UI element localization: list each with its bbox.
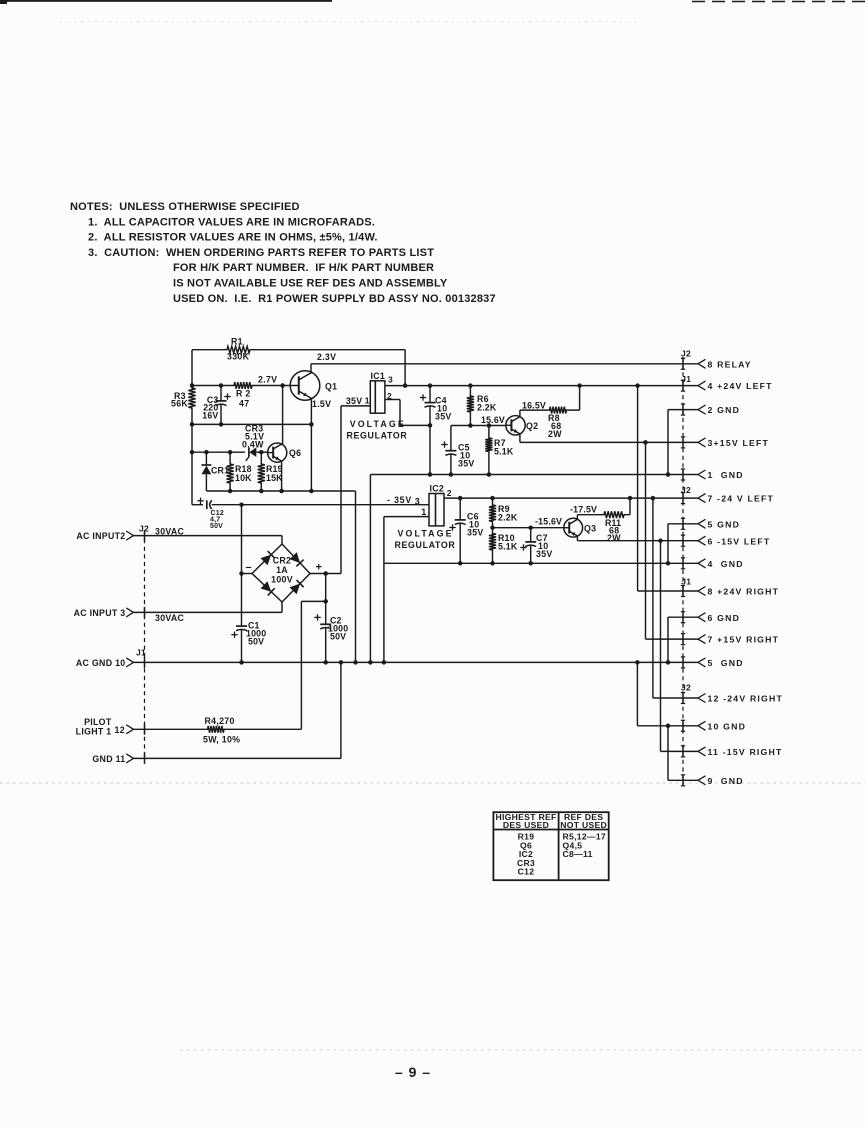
svg-text:7 -24 V LEFT: 7 -24 V LEFT (708, 494, 775, 504)
svg-text:16.5V: 16.5V (522, 401, 546, 411)
svg-text:1 GND: 1 GND (708, 470, 744, 480)
svg-text:GND 11: GND 11 (92, 754, 125, 764)
svg-text:12: 12 (115, 725, 125, 735)
svg-text:J2: J2 (681, 485, 691, 495)
svg-text:- 35V: - 35V (387, 495, 412, 505)
svg-text:USED ON. I.E. R1 POWER SUPPL: USED ON. I.E. R1 POWER SUPPLY BD ASSY NO… (173, 293, 496, 305)
svg-text:3+15V LEFT: 3+15V LEFT (708, 438, 770, 448)
svg-text:2 GND: 2 GND (708, 405, 741, 415)
svg-text:8 RELAY: 8 RELAY (708, 359, 752, 369)
svg-text:Q1: Q1 (325, 382, 337, 392)
svg-text:12 -24V RIGHT: 12 -24V RIGHT (708, 694, 783, 704)
svg-text:5 GND: 5 GND (708, 519, 741, 529)
svg-text:15K: 15K (266, 473, 283, 483)
svg-text:AC GND 10: AC GND 10 (76, 658, 126, 668)
svg-text:J2: J2 (681, 349, 691, 359)
svg-text:– 9 –: – 9 – (395, 1064, 431, 1080)
svg-text:2: 2 (447, 488, 452, 498)
svg-text:30VAC: 30VAC (155, 613, 185, 623)
svg-text:AC INPUT 3: AC INPUT 3 (74, 608, 126, 618)
svg-text:Q6: Q6 (289, 448, 301, 458)
svg-text:1.5V: 1.5V (312, 399, 331, 409)
svg-text:R4,270: R4,270 (205, 716, 235, 726)
svg-text:9 GND: 9 GND (708, 776, 744, 786)
svg-text:FOR H/K PART NUMBER. IF H/K P: FOR H/K PART NUMBER. IF H/K PART NUMBER (173, 262, 434, 274)
svg-text:1A: 1A (276, 565, 288, 575)
svg-text:+: + (316, 562, 323, 574)
svg-text:–: – (246, 562, 252, 574)
svg-text:-15.6V: -15.6V (535, 517, 562, 527)
svg-text:VOLTAGE: VOLTAGE (398, 528, 452, 538)
svg-text:7 +15V RIGHT: 7 +15V RIGHT (708, 635, 780, 645)
svg-text:50V: 50V (248, 637, 264, 647)
svg-text:IS NOT AVAILABLE USE REF DES A: IS NOT AVAILABLE USE REF DES AND ASSEMBL… (173, 278, 448, 290)
svg-text:REGULATOR: REGULATOR (347, 430, 408, 440)
svg-text:5.1K: 5.1K (494, 447, 514, 457)
svg-text:J2: J2 (681, 683, 691, 693)
svg-text:330K: 330K (227, 352, 250, 362)
svg-text:NOTES: UNLESS OTHERWISE SPEC: NOTES: UNLESS OTHERWISE SPECIFIED (70, 201, 300, 213)
svg-text:REGULATOR: REGULATOR (395, 540, 456, 550)
svg-text:2W: 2W (548, 429, 562, 439)
svg-text:35V: 35V (467, 528, 484, 538)
svg-text:2.3V: 2.3V (317, 352, 336, 362)
svg-text:1: 1 (421, 507, 426, 517)
svg-text:-17.5V: -17.5V (570, 505, 597, 515)
svg-text:47: 47 (239, 399, 249, 409)
svg-text:6 GND: 6 GND (708, 613, 741, 623)
svg-text:3. CAUTION: WHEN ORDERING P: 3. CAUTION: WHEN ORDERING PARTS REFER TO… (88, 247, 434, 259)
svg-text:10K: 10K (235, 473, 252, 483)
svg-text:Q2: Q2 (526, 421, 538, 431)
svg-text:4 GND: 4 GND (708, 559, 744, 569)
svg-text:AC INPUT2: AC INPUT2 (76, 531, 125, 541)
svg-text:J1: J1 (681, 374, 691, 384)
svg-text:2.2K: 2.2K (498, 513, 518, 523)
svg-text:LIGHT 1: LIGHT 1 (76, 727, 112, 737)
svg-text:VOLTAGE: VOLTAGE (350, 419, 404, 429)
svg-text:IC2: IC2 (430, 484, 445, 494)
svg-text:C8—11: C8—11 (563, 849, 593, 859)
svg-text:R 2: R 2 (236, 389, 251, 399)
svg-text:4 +24V LEFT: 4 +24V LEFT (708, 381, 773, 391)
svg-text:6 -15V LEFT: 6 -15V LEFT (708, 536, 771, 546)
svg-text:35V: 35V (346, 396, 363, 406)
svg-text:5 GND: 5 GND (708, 658, 744, 668)
svg-text:IC1: IC1 (371, 371, 386, 381)
svg-text:35V: 35V (435, 412, 452, 422)
svg-text:NOT USED: NOT USED (560, 820, 607, 830)
svg-text:35V: 35V (458, 459, 475, 469)
svg-text:11 -15V RIGHT: 11 -15V RIGHT (708, 747, 783, 757)
svg-text:5.1K: 5.1K (498, 542, 518, 552)
svg-text:R1: R1 (231, 337, 243, 347)
svg-text:2. ALL RESISTOR VALUES ARE IN: 2. ALL RESISTOR VALUES ARE IN OHMS, ±5%,… (88, 232, 378, 244)
svg-text:10 GND: 10 GND (708, 721, 747, 731)
svg-text:CR2: CR2 (273, 556, 292, 566)
svg-text:15.6V: 15.6V (481, 415, 505, 425)
svg-text:2.2K: 2.2K (477, 403, 497, 413)
svg-text:50V: 50V (330, 632, 346, 642)
svg-text:35V: 35V (536, 549, 553, 559)
svg-text:0.4W: 0.4W (242, 440, 264, 450)
svg-text:8 +24V RIGHT: 8 +24V RIGHT (708, 587, 780, 597)
svg-text:56K: 56K (171, 399, 188, 409)
svg-text:1: 1 (365, 396, 370, 406)
svg-text:C12: C12 (518, 867, 535, 877)
svg-text:2.7V: 2.7V (258, 375, 277, 385)
svg-text:DES USED: DES USED (503, 820, 549, 830)
svg-text:2W: 2W (607, 533, 621, 543)
svg-text:J1: J1 (681, 577, 691, 587)
svg-text:3: 3 (415, 497, 420, 507)
svg-text:100V: 100V (271, 575, 293, 585)
svg-text:5W, 10%: 5W, 10% (203, 735, 240, 745)
svg-text:50V: 50V (210, 523, 223, 530)
svg-text:30VAC: 30VAC (155, 527, 185, 537)
svg-text:16V: 16V (202, 411, 218, 421)
svg-text:Q3: Q3 (584, 524, 596, 534)
svg-text:3: 3 (388, 375, 393, 385)
svg-text:PILOT: PILOT (84, 717, 112, 727)
svg-text:1. ALL CAPACITOR VALUES ARE I: 1. ALL CAPACITOR VALUES ARE IN MICROFARA… (88, 216, 375, 228)
